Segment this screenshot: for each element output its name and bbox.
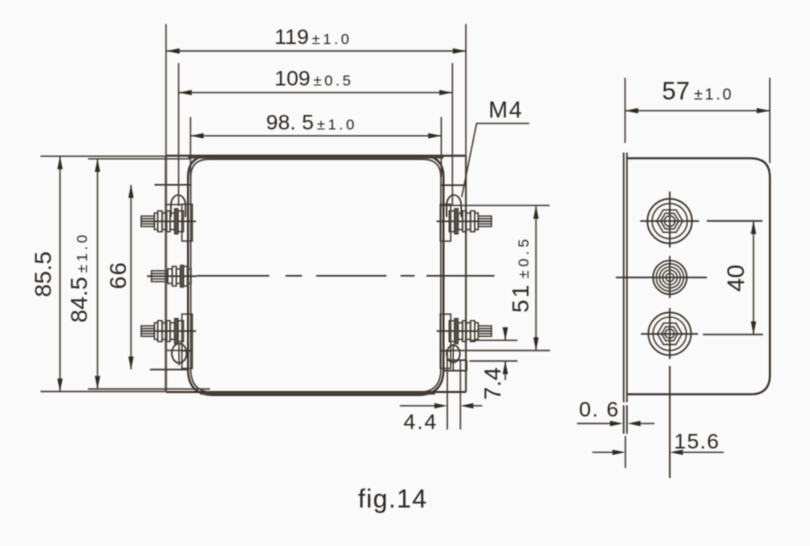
svg-text:fig.14: fig.14 — [358, 484, 428, 514]
bottom-left block extension — [182, 351, 192, 369]
dimension 15.6 — [592, 430, 723, 469]
terminal top-left — [141, 204, 196, 241]
terminal bottom-left — [141, 314, 196, 351]
svg-text:40: 40 — [723, 264, 750, 291]
dimension 85.5 — [30, 156, 166, 391]
body centerline dash-dot — [197, 275, 495, 277]
mounting slot top-left — [171, 63, 186, 217]
mounting slot top-right — [447, 63, 462, 217]
dimension 4.4 — [400, 352, 482, 434]
dimension 57±1.0 — [625, 78, 770, 164]
dimension 0.6 — [577, 398, 654, 434]
svg-text:85.5: 85.5 — [30, 251, 56, 297]
body bottom edge band fill — [200, 393, 435, 395]
svg-text:4.4: 4.4 — [404, 410, 438, 434]
label M4 with leader — [462, 96, 530, 197]
caption fig.14 — [358, 484, 428, 514]
dimension 98.5±1.0 — [191, 111, 442, 182]
side flange strip edge-on — [624, 153, 627, 403]
dimension 7.4 — [469, 327, 517, 400]
dimension 66 — [105, 185, 134, 370]
right terminal block foot — [444, 360, 467, 371]
mounting flange plate outline — [166, 156, 466, 392]
left terminal block bottom edge + 66 extension — [150, 369, 188, 371]
body top edge band fill — [188, 157, 444, 159]
svg-text:0. 6: 0. 6 — [579, 398, 620, 422]
filter body inner shell line — [191, 159, 441, 392]
dimension 119±1.0 — [166, 24, 466, 156]
left block lower step line — [166, 349, 191, 351]
svg-text:15.6: 15.6 — [674, 430, 720, 454]
dimension 51±0.5 — [441, 205, 550, 350]
mounting slot bottom-left — [172, 343, 187, 366]
dimension 40 — [723, 221, 756, 334]
side terminal middle circles — [653, 261, 687, 295]
svg-text:7.4: 7.4 — [480, 367, 506, 400]
terminal middle-left — [147, 265, 197, 287]
side body outline — [627, 158, 770, 394]
bottom-right block extension — [440, 351, 450, 369]
terminal bottom-right — [437, 314, 492, 351]
dimension 84.5±1.0 — [66, 159, 210, 389]
mounting slot bottom-right — [447, 344, 460, 370]
svg-text:66: 66 — [105, 262, 131, 290]
right terminal block top edge — [441, 184, 466, 186]
side vertical centerline — [669, 192, 671, 479]
terminal top-right — [437, 204, 492, 241]
side horizontal centerlines — [616, 221, 763, 335]
left block step line — [166, 204, 182, 206]
left terminal block top edge + 66 extension — [155, 184, 191, 186]
side terminal top circles — [647, 199, 692, 244]
dimension 109±0.5 — [179, 67, 453, 96]
filter body outer shell — [188, 156, 444, 395]
side terminal bottom circles — [648, 312, 691, 355]
svg-text:M4: M4 — [489, 96, 524, 122]
